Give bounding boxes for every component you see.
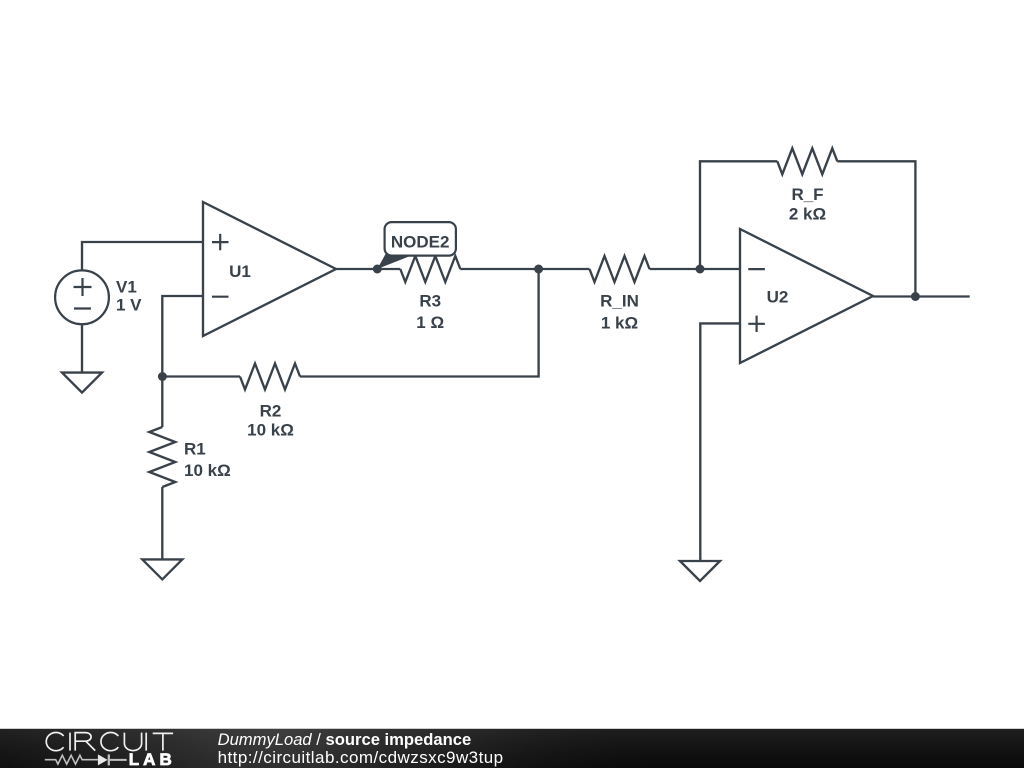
svg-text:2 kΩ: 2 kΩ	[789, 205, 826, 224]
svg-text:V1: V1	[116, 277, 137, 296]
svg-text:DummyLoad / source impedance: DummyLoad / source impedance	[218, 730, 472, 749]
svg-text:U2: U2	[767, 287, 789, 306]
svg-text:NODE2: NODE2	[391, 232, 450, 251]
svg-text:http://circuitlab.com/cdwzsxc9: http://circuitlab.com/cdwzsxc9w3tup	[218, 748, 504, 767]
svg-text:1 V: 1 V	[116, 296, 142, 315]
svg-text:LAB: LAB	[129, 750, 176, 768]
svg-text:10 kΩ: 10 kΩ	[184, 461, 231, 480]
svg-text:R_IN: R_IN	[600, 292, 639, 311]
svg-text:R1: R1	[184, 440, 206, 459]
svg-text:1 kΩ: 1 kΩ	[601, 314, 638, 333]
svg-text:U1: U1	[229, 262, 251, 281]
svg-text:R3: R3	[419, 292, 441, 311]
svg-text:R_F: R_F	[791, 185, 823, 204]
svg-text:10 kΩ: 10 kΩ	[247, 420, 294, 439]
svg-text:1 Ω: 1 Ω	[416, 313, 444, 332]
svg-text:R2: R2	[260, 401, 282, 420]
